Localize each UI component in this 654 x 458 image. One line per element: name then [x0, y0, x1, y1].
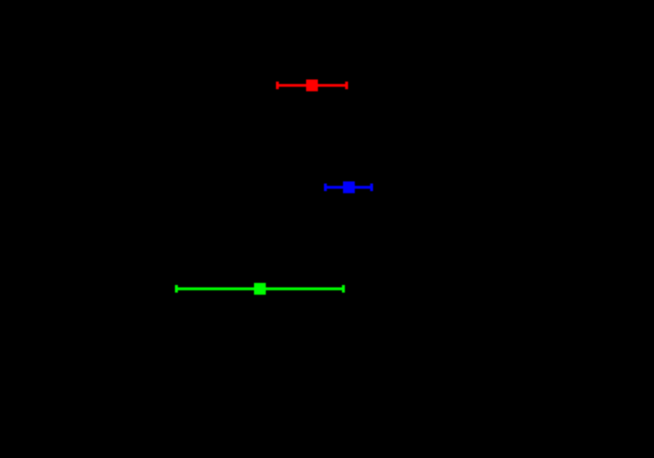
green series error bar line — [176, 287, 343, 290]
blue series error bar line — [325, 186, 371, 189]
blue left cap — [324, 184, 327, 192]
green square marker — [254, 283, 266, 295]
red right cap — [345, 82, 348, 90]
blue right cap — [370, 184, 373, 192]
red series error bar line — [277, 84, 346, 87]
red left cap — [276, 82, 279, 90]
green left cap — [175, 285, 178, 293]
red square marker — [306, 80, 318, 92]
green right cap — [342, 285, 345, 293]
blue square marker — [343, 181, 355, 193]
